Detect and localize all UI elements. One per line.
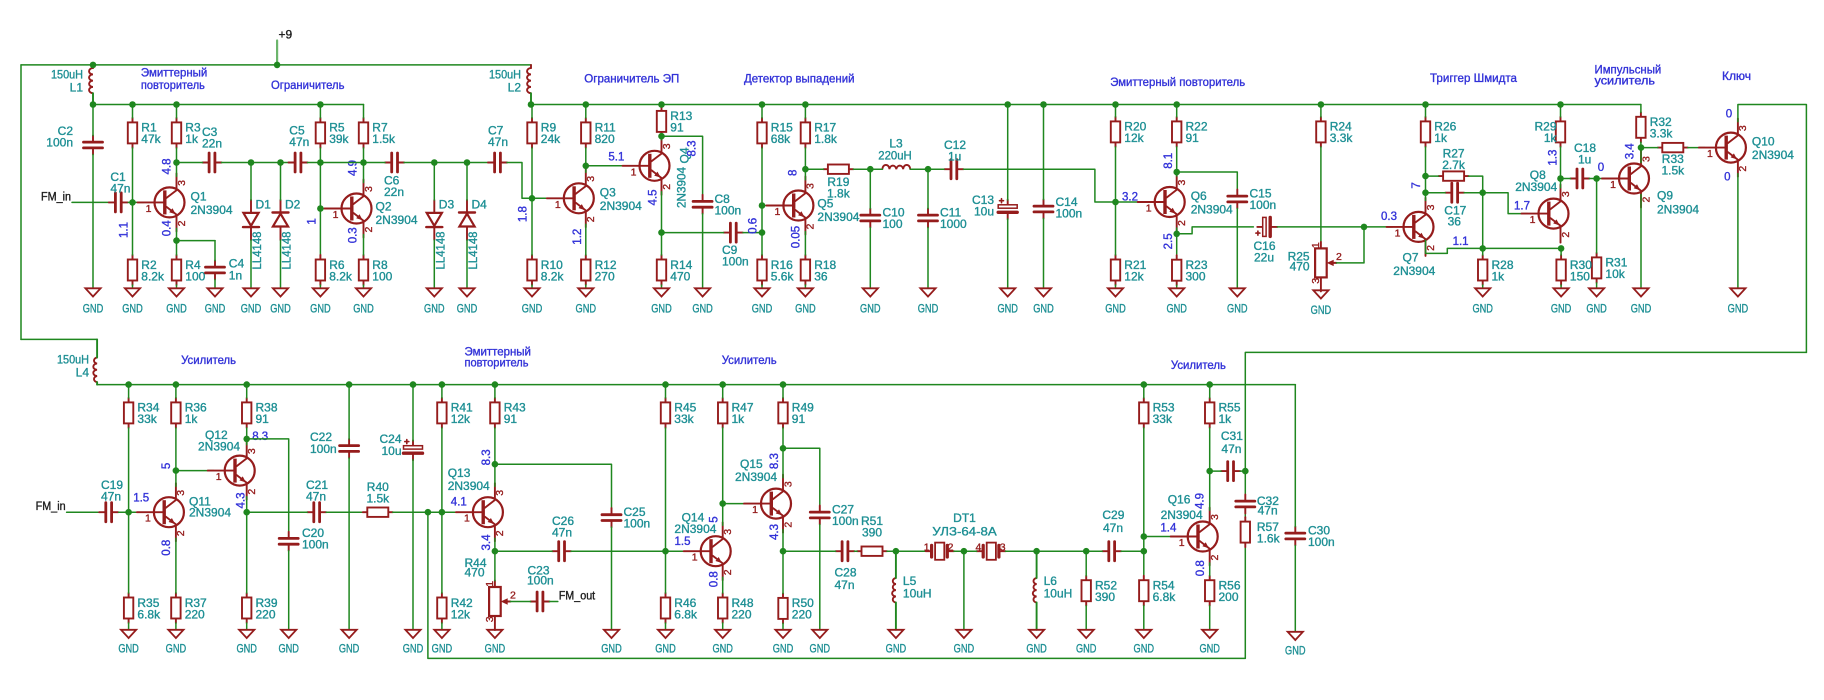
- wire emitter Q4: [661, 192, 663, 233]
- junction: [1558, 245, 1565, 252]
- wire: [1560, 105, 1562, 117]
- svg-text:1: 1: [774, 206, 780, 218]
- wire: [1115, 202, 1117, 255]
- wire: [250, 240, 252, 288]
- wire: [805, 168, 823, 170]
- svg-text:GND: GND: [310, 302, 331, 316]
- ground: [353, 288, 374, 315]
- ground: [795, 288, 816, 315]
- svg-text:12k: 12k: [1124, 131, 1144, 145]
- wire: [433, 163, 435, 201]
- wire: [782, 385, 784, 398]
- wire: [1244, 513, 1246, 517]
- ground: [1472, 288, 1493, 315]
- svg-text:47n: 47n: [1258, 504, 1278, 518]
- resistor R32: [1636, 112, 1673, 142]
- svg-text:2: 2: [1209, 555, 1221, 561]
- wire to Q16 base: [1144, 536, 1177, 538]
- junction: [492, 381, 499, 388]
- capacitor C3 22n: [202, 125, 222, 172]
- svg-text:2: 2: [246, 489, 258, 495]
- wire R29 to Q8 collector: [1560, 147, 1562, 188]
- wire left drop to bottom row: [20, 65, 22, 340]
- wire: [494, 428, 496, 464]
- wire Q7-Q8 emitter line: [1426, 240, 1562, 253]
- wire rail B left segment: [93, 104, 364, 106]
- svg-text:2N3904: 2N3904: [1161, 508, 1203, 522]
- resistor R37: [171, 593, 207, 623]
- wire: [92, 105, 94, 136]
- svg-text:4.8: 4.8: [161, 159, 173, 175]
- inductor L6 10uH: [1033, 551, 1072, 630]
- wire: [348, 458, 350, 630]
- svg-text:91: 91: [504, 412, 518, 426]
- resistor R4: [172, 255, 206, 285]
- svg-text:C29: C29: [1102, 508, 1124, 522]
- wire: [412, 460, 414, 630]
- wire emitter Q10: [1737, 174, 1739, 289]
- svg-text:8.3: 8.3: [769, 453, 781, 469]
- wire: [887, 550, 926, 552]
- svg-text:22u: 22u: [1254, 251, 1274, 265]
- svg-text:2: 2: [510, 590, 516, 602]
- wire collector Q14: [722, 504, 724, 526]
- svg-text:1k: 1k: [1434, 131, 1448, 145]
- svg-text:3: 3: [175, 490, 187, 496]
- svg-text:Усилитель: Усилитель: [181, 353, 236, 367]
- svg-text:150uH: 150uH: [489, 67, 521, 81]
- wire: [246, 512, 248, 593]
- svg-text:повторитель: повторитель: [141, 78, 205, 92]
- transistor Q6: [1138, 173, 1233, 231]
- svg-text:100: 100: [372, 269, 392, 283]
- wire: [1143, 385, 1145, 398]
- svg-text:2N3904: 2N3904: [1515, 180, 1557, 194]
- svg-text:L4: L4: [76, 365, 90, 379]
- resistor R22: [1172, 117, 1208, 147]
- ground: [1586, 288, 1607, 315]
- ground: [118, 630, 139, 656]
- svg-text:150: 150: [1570, 269, 1590, 283]
- transistor: [684, 522, 734, 580]
- resistor R46: [661, 593, 698, 623]
- svg-text:1: 1: [307, 218, 319, 224]
- inductor L4 150uH: [57, 339, 97, 384]
- svg-text:4.9: 4.9: [1194, 493, 1206, 509]
- ground: [122, 288, 143, 315]
- wire: [214, 280, 216, 289]
- wire: [128, 201, 143, 203]
- wire: [1210, 470, 1221, 472]
- svg-text:220: 220: [256, 607, 276, 621]
- svg-text:0.8: 0.8: [1195, 560, 1207, 576]
- resistor R30: [1556, 255, 1592, 285]
- svg-text:D1: D1: [256, 198, 272, 212]
- svg-text:7: 7: [1411, 182, 1423, 188]
- wire: [665, 385, 667, 398]
- junction: [243, 509, 250, 516]
- diode D2 LL4148: [273, 163, 301, 270]
- junction: [464, 159, 471, 166]
- svg-text:3: 3: [661, 143, 673, 149]
- transistor: [744, 475, 794, 533]
- resistor R28: [1478, 255, 1514, 285]
- wire: [531, 105, 533, 118]
- capacitor C2 100n: [46, 124, 102, 155]
- wire: [761, 148, 763, 206]
- junction: [492, 461, 499, 468]
- junction: [658, 101, 665, 108]
- wire: [585, 105, 587, 118]
- wire: [1688, 147, 1705, 149]
- junction: [867, 166, 874, 173]
- svg-text:100n: 100n: [527, 574, 554, 588]
- wire: [1244, 471, 1246, 495]
- capacitor C32 47n: [1236, 494, 1279, 518]
- wire: [869, 228, 871, 289]
- svg-text:100: 100: [883, 217, 903, 231]
- wire: [319, 209, 321, 256]
- wire: [214, 241, 216, 261]
- svg-text:6.8k: 6.8k: [137, 607, 161, 621]
- resistor: [1241, 517, 1250, 547]
- svg-text:8.1: 8.1: [1163, 153, 1175, 169]
- junction: [583, 163, 590, 170]
- resistor R43: [490, 398, 526, 428]
- inductor L1 150uH: [51, 65, 93, 105]
- wire: [1640, 105, 1642, 113]
- ground: [712, 630, 733, 656]
- svg-text:3: 3: [782, 481, 794, 487]
- capacitor C22 100n: [310, 430, 359, 458]
- wire: [364, 162, 386, 164]
- junction: [274, 62, 281, 69]
- capacitor C29 47n: [1102, 508, 1125, 561]
- wire: [927, 228, 929, 289]
- capacitor C21 47n: [306, 478, 328, 522]
- resistor R41: [437, 398, 473, 428]
- svg-text:8: 8: [788, 170, 800, 176]
- ground: [954, 630, 975, 656]
- wire to Q8 base: [1483, 193, 1528, 214]
- wire: [1007, 105, 1009, 201]
- wire: [927, 169, 929, 208]
- wire: [1176, 147, 1178, 172]
- svg-text:150uH: 150uH: [57, 352, 89, 366]
- svg-text:GND: GND: [1199, 641, 1220, 655]
- wire: [175, 428, 177, 471]
- svg-text:1: 1: [1395, 227, 1401, 239]
- resistor R27: [1439, 147, 1469, 181]
- junction: [1004, 101, 1011, 108]
- wire: [319, 285, 321, 288]
- wire: [222, 162, 289, 164]
- wire R53-R54 chain: [1143, 428, 1145, 576]
- svg-text:1.4: 1.4: [1160, 523, 1177, 535]
- svg-text:GND: GND: [1134, 641, 1155, 655]
- capacitor C18 1u: [1570, 141, 1596, 188]
- wire: [466, 163, 468, 201]
- wire R25 wiper to Q7 base: [1336, 227, 1364, 263]
- svg-text:C31: C31: [1221, 429, 1243, 443]
- junction: [173, 159, 180, 166]
- ground: [166, 288, 187, 315]
- resistor R36: [171, 398, 207, 428]
- svg-text:Усилитель: Усилитель: [722, 353, 777, 367]
- svg-text:2: 2: [1640, 197, 1652, 203]
- wire: [661, 285, 663, 288]
- transistor: [1171, 508, 1221, 566]
- wire emitter Q12: [246, 497, 248, 513]
- junction: [759, 202, 766, 209]
- wire: [531, 285, 533, 288]
- transistor Q2: [325, 180, 418, 238]
- wire: [1596, 283, 1598, 288]
- junction: [173, 381, 180, 388]
- junction: [1173, 101, 1180, 108]
- capacitor C1 47n: [109, 170, 131, 212]
- resistor R26: [1421, 117, 1457, 147]
- delay line DT1 УЛЗ-64-8А: [924, 511, 1006, 560]
- wire: [466, 240, 468, 288]
- svg-text:0.8: 0.8: [161, 540, 173, 556]
- svg-text:1k: 1k: [1544, 131, 1558, 145]
- svg-text:3: 3: [176, 180, 188, 186]
- wire base Q5: [762, 205, 772, 207]
- wire: [1043, 219, 1045, 289]
- junction: [802, 166, 809, 173]
- svg-text:3: 3: [1000, 541, 1006, 553]
- ground: [692, 288, 713, 315]
- ground: [1285, 632, 1306, 658]
- svg-text:GND: GND: [522, 302, 543, 316]
- svg-text:10u: 10u: [974, 204, 994, 218]
- svg-text:3: 3: [363, 186, 375, 192]
- wire base Q3: [532, 197, 553, 199]
- svg-text:Q3: Q3: [600, 185, 616, 199]
- resistor R50: [778, 593, 814, 623]
- wire: [1277, 226, 1364, 228]
- svg-text:47n: 47n: [488, 135, 508, 149]
- wire emitter Q11: [175, 538, 177, 593]
- svg-text:2: 2: [1336, 251, 1342, 263]
- svg-text:Q16: Q16: [1168, 493, 1191, 507]
- wire: [1240, 470, 1245, 472]
- wire: [1115, 285, 1117, 288]
- svg-text:91: 91: [256, 412, 270, 426]
- svg-text:1: 1: [1707, 148, 1713, 160]
- svg-text:10k: 10k: [1605, 267, 1625, 281]
- svg-text:GND: GND: [457, 302, 478, 316]
- svg-text:2N3904: 2N3904: [735, 470, 777, 484]
- capacitor C24 10u polarized: [379, 432, 422, 460]
- wire feedback top run: [1245, 352, 1806, 471]
- junction: [1593, 175, 1600, 182]
- svg-text:100: 100: [185, 269, 205, 283]
- svg-text:2: 2: [1737, 166, 1749, 172]
- svg-text:GND: GND: [655, 641, 676, 655]
- svg-text:GND: GND: [166, 641, 187, 655]
- diode D3 LL4148: [426, 163, 454, 270]
- svg-text:47n: 47n: [110, 182, 130, 196]
- svg-text:GND: GND: [1033, 302, 1054, 316]
- wire: [1209, 428, 1211, 471]
- resistor R34: [124, 398, 160, 428]
- wire FM_in: [72, 201, 108, 203]
- svg-text:36: 36: [814, 269, 828, 283]
- svg-text:150uH: 150uH: [51, 67, 83, 81]
- svg-text:0.3: 0.3: [1381, 211, 1397, 223]
- svg-text:0: 0: [1726, 109, 1732, 121]
- svg-text:68k: 68k: [771, 132, 791, 146]
- svg-text:GND: GND: [1166, 302, 1187, 316]
- wire: [1209, 606, 1211, 630]
- ground: [339, 630, 360, 656]
- wire: [92, 155, 94, 289]
- resistor R35: [124, 593, 161, 623]
- svg-text:1k: 1k: [185, 132, 199, 146]
- wire collector Q5: [804, 169, 806, 180]
- svg-text:47k: 47k: [141, 132, 161, 146]
- svg-text:33k: 33k: [1153, 412, 1173, 426]
- resistor R53: [1139, 398, 1175, 428]
- svg-text:GND: GND: [278, 641, 299, 655]
- junction: [1557, 175, 1564, 182]
- capacitor C26 47n: [552, 514, 574, 561]
- junction: [317, 101, 324, 108]
- svg-text:220: 220: [792, 608, 812, 622]
- junction: [173, 101, 180, 108]
- svg-text:3.3k: 3.3k: [1330, 131, 1354, 145]
- svg-text:100n: 100n: [715, 204, 742, 218]
- svg-text:Эмиттерный повторитель: Эмиттерный повторитель: [1110, 75, 1245, 89]
- ground: [278, 630, 299, 656]
- transistor Q10: [1699, 119, 1794, 177]
- svg-text:3: 3: [1310, 278, 1322, 284]
- junction: [125, 381, 132, 388]
- svg-text:Усилитель: Усилитель: [1171, 358, 1226, 372]
- svg-text:10uH: 10uH: [1044, 587, 1073, 601]
- wire emitter Q9: [1640, 195, 1642, 289]
- svg-text:2N3904: 2N3904: [198, 440, 240, 454]
- wire: [722, 623, 724, 630]
- svg-text:GND: GND: [118, 641, 139, 655]
- svg-text:0: 0: [1724, 171, 1730, 183]
- wire: [1085, 551, 1087, 576]
- junction: [277, 159, 284, 166]
- resistor R7: [359, 118, 396, 148]
- svg-text:1.3: 1.3: [1547, 150, 1559, 166]
- wire: [176, 285, 178, 288]
- wire collector Q3: [585, 166, 587, 173]
- svg-text:GND: GND: [205, 302, 226, 316]
- wire: [1176, 285, 1178, 288]
- svg-text:8.2k: 8.2k: [329, 269, 353, 283]
- svg-text:22n: 22n: [384, 185, 404, 199]
- svg-text:1: 1: [1146, 203, 1152, 215]
- svg-text:3: 3: [246, 448, 258, 454]
- wire to L4: [21, 338, 97, 340]
- ground: [83, 288, 104, 315]
- svg-text:8.3: 8.3: [481, 449, 493, 465]
- junction: [1112, 199, 1119, 206]
- svg-text:Ограничитель: Ограничитель: [271, 78, 345, 92]
- capacitor C31 47n: [1221, 429, 1243, 481]
- wire: [1121, 550, 1144, 552]
- svg-text:1k: 1k: [185, 412, 199, 426]
- junction: [1422, 173, 1429, 180]
- wire to Q7 base: [1364, 226, 1393, 228]
- junction: [90, 101, 97, 108]
- svg-text:200: 200: [1219, 590, 1239, 604]
- wire to Q12 base: [176, 470, 214, 472]
- resistor R9: [527, 118, 561, 148]
- resistor R42: [437, 593, 473, 623]
- ground: [1076, 630, 1097, 656]
- resistor R11: [581, 118, 616, 148]
- junction: [125, 509, 132, 516]
- junction: [662, 548, 669, 555]
- svg-text:100n: 100n: [1250, 198, 1277, 212]
- wire: [761, 105, 763, 118]
- wire collector Q13: [494, 464, 496, 486]
- svg-text:3: 3: [1425, 204, 1437, 210]
- svg-text:36: 36: [1448, 215, 1462, 229]
- wire emitter Q3: [585, 224, 587, 255]
- transistor: [456, 483, 506, 541]
- wire: [441, 623, 443, 630]
- svg-text:47n: 47n: [1221, 442, 1241, 456]
- junction: [1422, 189, 1429, 196]
- capacitor C14 100n: [1034, 195, 1082, 221]
- svg-text:1.5k: 1.5k: [366, 492, 390, 506]
- svg-text:0.8: 0.8: [709, 571, 721, 587]
- junction: [1141, 533, 1148, 540]
- svg-text:GND: GND: [601, 641, 622, 655]
- svg-text:2: 2: [176, 220, 188, 226]
- wire: [119, 511, 144, 513]
- wire collector Q15: [782, 448, 784, 477]
- wire: [250, 163, 252, 201]
- svg-text:5: 5: [708, 516, 720, 522]
- svg-text:Q6: Q6: [1191, 189, 1207, 203]
- svg-text:0.6: 0.6: [747, 218, 759, 234]
- wire: [1589, 178, 1607, 180]
- capacitor C10 100: [861, 206, 905, 232]
- wire: [702, 214, 704, 288]
- wire: [853, 168, 870, 170]
- svg-text:12k: 12k: [451, 412, 471, 426]
- svg-text:820: 820: [595, 132, 615, 146]
- resistor R48: [718, 593, 754, 623]
- svg-text:10u: 10u: [381, 444, 401, 458]
- resistor R49: [778, 398, 814, 428]
- junction: [1638, 144, 1645, 151]
- wire: [132, 105, 134, 118]
- svg-text:1: 1: [692, 552, 698, 564]
- svg-text:220: 220: [185, 607, 205, 621]
- svg-text:91: 91: [1186, 131, 1200, 145]
- junction: [802, 101, 809, 108]
- svg-text:GND: GND: [773, 641, 794, 655]
- svg-text:4.3: 4.3: [769, 524, 781, 540]
- capacitor C13 10u polarized: [972, 193, 1017, 220]
- wire: [441, 428, 443, 512]
- ground: [773, 630, 794, 656]
- junction: [243, 436, 250, 443]
- wire: [363, 285, 365, 288]
- svg-text:5.6k: 5.6k: [771, 269, 795, 283]
